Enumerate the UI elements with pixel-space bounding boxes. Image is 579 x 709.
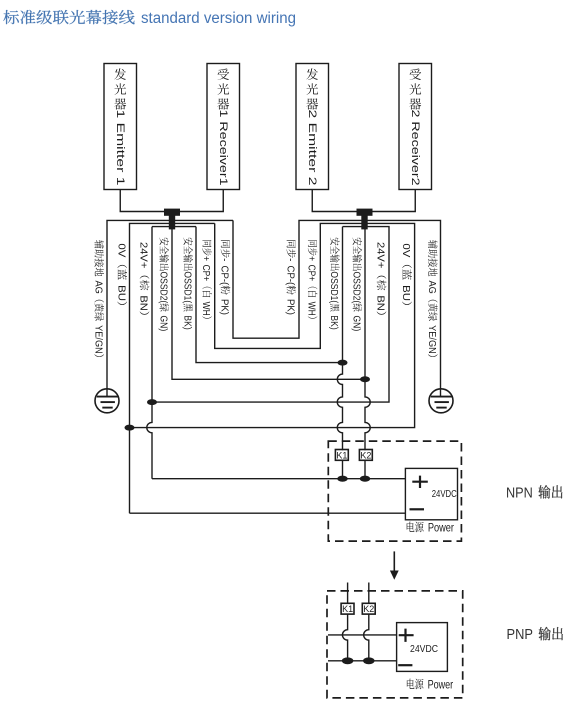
- svg-text:standard version wiring: standard version wiring: [141, 10, 296, 27]
- junction dot K1/rail (NPN): [337, 476, 347, 482]
- svg-text:BN: BN: [375, 295, 386, 310]
- wire receiver2 to junction J2: [366, 190, 415, 212]
- svg-text:OSSD1(: OSSD1(: [328, 271, 339, 303]
- svg-text:K1: K1: [342, 604, 353, 614]
- svg-text:CP-(: CP-(: [284, 266, 295, 286]
- wire 0V rail to power minus (PNP): [328, 660, 397, 662]
- svg-text:24V+: 24V+: [138, 242, 149, 268]
- wire OSSD1 (left cable, black) fan-out + crossover to right OSSD1: [172, 226, 196, 228]
- label NPN 输出: [506, 485, 562, 501]
- junction dot K2/rail (NPN): [360, 476, 370, 482]
- power supply U2 24VDC (PNP): [397, 623, 448, 672]
- svg-text:BK): BK): [181, 315, 192, 329]
- svg-text:OSSD1(: OSSD1(: [181, 271, 192, 303]
- wire OSSD2 (right cable, green) stem drop to K2 (hops 2 lines): [365, 228, 370, 450]
- ground symbol left (protective earth): [95, 389, 119, 413]
- relay K1 (PNP): [341, 603, 354, 614]
- svg-text:GN): GN): [157, 316, 168, 332]
- svg-text:WH: WH: [306, 302, 317, 316]
- junction dot K2/0V rail (PNP): [363, 657, 375, 664]
- label 24V+ right: [375, 242, 387, 315]
- junction dot OSSD1 crossover: [338, 360, 348, 366]
- wire OSSD1 (right cable, black) fan-out + drop to K1 (hops 3 lines): [343, 226, 365, 228]
- wire 0V (right cable, blue) fan-out + drop + crossover to left 0V: [130, 223, 415, 427]
- svg-text:1 Receiver1: 1 Receiver1: [217, 110, 229, 186]
- svg-text:BN: BN: [138, 295, 149, 310]
- svg-text:AG: AG: [92, 280, 103, 293]
- svg-text:Power: Power: [428, 522, 454, 534]
- relay K2 (NPN): [359, 450, 372, 461]
- label CP- left 同步-: [219, 240, 231, 315]
- receiver R1 受光器1: [207, 64, 240, 190]
- label OSSD1 left 安全输出OSSD1: [181, 238, 193, 330]
- svg-text:YE/GN: YE/GN: [426, 325, 437, 354]
- svg-text:1 Emitter 1: 1 Emitter 1: [114, 110, 126, 186]
- svg-text:BU: BU: [115, 285, 126, 301]
- svg-text:-: -: [284, 258, 295, 261]
- wire 24V+ (right cable, brown) fan-out + drop + crossover to left 24V: [152, 227, 389, 403]
- svg-text:24VDC: 24VDC: [432, 488, 457, 500]
- label OSSD1 right 安全输出OSSD1: [328, 238, 340, 330]
- svg-text:PK): PK): [219, 299, 230, 315]
- label 0V left: [115, 243, 127, 305]
- svg-text:2 Emitter 2: 2 Emitter 2: [306, 110, 318, 186]
- svg-text:BK): BK): [328, 315, 339, 329]
- label AG left 辅助接地: [92, 240, 104, 357]
- svg-text:0V: 0V: [400, 243, 411, 257]
- emitter E1 发光器1: [104, 64, 137, 190]
- title text (CJK part): [3, 10, 134, 24]
- svg-text:PNP: PNP: [507, 627, 533, 643]
- relay K2 (PNP): [362, 603, 375, 614]
- power supply U1 24VDC (NPN): [405, 468, 457, 519]
- label CP+ right 同步+: [306, 240, 318, 319]
- cable junction J2 (right cable): [357, 209, 373, 230]
- wire OSSD1 stub into PNP box: [347, 583, 349, 604]
- wire K2 to 0V rail, hops 24V rail (PNP): [364, 614, 369, 661]
- arrow NPN to PNP: [393, 551, 395, 570]
- cable junction J1 (left cable): [164, 209, 180, 230]
- wire 24V rail to power plus (PNP): [328, 634, 397, 636]
- svg-text:GN): GN): [350, 316, 361, 332]
- PNP output dashed enclosure: [327, 591, 463, 698]
- label 24V+ left: [138, 242, 150, 315]
- svg-text:-: -: [219, 258, 230, 261]
- wire AG (left cable, yellow-green) fan-out + drop to ground: [107, 220, 172, 388]
- wire receiver1 to junction J1: [173, 190, 223, 212]
- emitter E2 发光器2: [296, 64, 329, 190]
- svg-text:YE/GN: YE/GN: [92, 325, 103, 354]
- svg-text:Power: Power: [428, 679, 454, 691]
- svg-text:BU: BU: [400, 285, 411, 301]
- svg-text:OSSD2(: OSSD2(: [350, 271, 361, 303]
- wire 24V rail to NPN power plus (through K1 K2): [152, 478, 405, 480]
- svg-text:+: +: [200, 256, 211, 261]
- svg-text:K1: K1: [336, 450, 347, 460]
- svg-text:CP-(: CP-(: [219, 266, 230, 286]
- svg-text:+: +: [306, 256, 317, 261]
- svg-text:CP+: CP+: [200, 265, 211, 282]
- label OSSD2 left 安全输出OSSD2: [157, 238, 169, 332]
- junction dot 0V-left / 0V crossover: [125, 425, 135, 431]
- svg-text:2 Receiver2: 2 Receiver2: [409, 110, 421, 186]
- wire emitter1 to junction J1: [120, 190, 171, 212]
- svg-text:K2: K2: [360, 450, 371, 460]
- svg-text:24VDC: 24VDC: [410, 643, 438, 655]
- svg-text:0V: 0V: [115, 243, 126, 257]
- wire K1 to 24V rail (NPN): [342, 461, 344, 479]
- relay K1 (NPN): [335, 450, 348, 461]
- NPN output dashed enclosure: [328, 441, 461, 541]
- wire OSSD2 (left cable, green) stem drop + crossover to right OSSD2: [172, 228, 365, 379]
- wire CP- sync (left cable, pink) loop to right cable CP-: [172, 219, 233, 221]
- wire AG (right cable, yellow-green) fan-out + drop to ground: [365, 220, 441, 388]
- svg-text:24V+: 24V+: [375, 242, 386, 268]
- svg-text:PK): PK): [284, 299, 295, 315]
- wire emitter2 to junction J2: [312, 190, 364, 212]
- junction dot OSSD2 crossover: [360, 376, 370, 382]
- wire 0V (left cable, blue) fan-out + drop to power minus rail: [130, 223, 173, 513]
- ground symbol right (protective earth): [429, 389, 453, 413]
- wire 24V+ (left cable, brown) fan-out + drop (hops over 0V line): [152, 226, 172, 228]
- junction dot 24V-left / 24V crossover: [147, 399, 157, 405]
- svg-text:CP+: CP+: [306, 265, 317, 282]
- label CP+ left 同步+: [200, 240, 212, 319]
- label 电源 Power (NPN): [407, 522, 454, 535]
- receiver R2 受光器2: [399, 64, 432, 190]
- label PNP 输出: [507, 627, 563, 643]
- label OSSD2 right 安全输出OSSD2: [350, 238, 362, 332]
- label AG right 辅助接地: [426, 240, 438, 357]
- wire CP+ sync (left cable, white) loop to right cable CP+: [172, 222, 215, 224]
- junction dot K1/0V rail (PNP): [342, 657, 354, 664]
- svg-text:AG: AG: [426, 280, 437, 293]
- svg-text:K2: K2: [363, 604, 374, 614]
- svg-text:OSSD2(: OSSD2(: [157, 271, 168, 303]
- wire OSSD2 stub into PNP box: [368, 583, 370, 604]
- label 电源 Power (PNP): [407, 679, 453, 692]
- svg-text:NPN: NPN: [506, 485, 533, 501]
- wire 0V rail to NPN power minus: [130, 512, 406, 514]
- wire K1 to 0V rail, hops 24V rail (PNP): [342, 614, 347, 661]
- svg-text:WH: WH: [200, 302, 211, 316]
- label CP- right 同步-: [284, 240, 296, 315]
- label 0V right: [400, 243, 412, 305]
- wire K2 to 24V rail (NPN): [364, 461, 366, 479]
